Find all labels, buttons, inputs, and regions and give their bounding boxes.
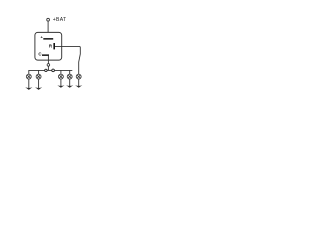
wire battery feed xyxy=(47,21,49,38)
ground arrow L2 xyxy=(35,87,42,90)
ground arrow R1 xyxy=(57,85,64,88)
flasher unit box xyxy=(35,32,62,60)
lamp R2 xyxy=(67,74,72,79)
ground arrow L1 xyxy=(25,87,32,90)
drop to lamp L1 xyxy=(28,70,30,74)
lamp R1 xyxy=(58,74,63,79)
drop to lamp L2 xyxy=(38,70,40,74)
ground stub L2 xyxy=(38,79,40,89)
drop to lamp R2 xyxy=(69,70,71,74)
ground stub L1 xyxy=(28,79,30,89)
ground arrow R3 xyxy=(75,85,82,88)
ground stub R3 xyxy=(78,79,80,86)
wire R to indicator lamp xyxy=(55,46,80,74)
terminal +BAT xyxy=(47,18,50,21)
svg-text:+BAT: +BAT xyxy=(53,17,67,23)
wire output to bus xyxy=(47,66,49,70)
bus wire center xyxy=(47,69,52,71)
ground stub R1 xyxy=(60,79,62,86)
drop to lamp R1 xyxy=(60,70,62,74)
terminal bar C xyxy=(42,54,49,56)
wire output down xyxy=(47,56,49,64)
connector circle bus right xyxy=(52,69,55,72)
bus wire right xyxy=(54,69,72,71)
lamp L1 xyxy=(26,74,31,79)
connector circle bus left xyxy=(45,69,47,71)
connector circle output xyxy=(47,64,50,67)
lamp R3 indicator xyxy=(76,74,81,79)
lamp L2 xyxy=(36,74,41,79)
terminal bar R xyxy=(53,43,55,49)
ground stub R2 xyxy=(69,79,71,86)
terminal bar B xyxy=(43,38,53,40)
ground arrow R2 xyxy=(66,85,73,88)
bus wire left xyxy=(29,69,45,71)
